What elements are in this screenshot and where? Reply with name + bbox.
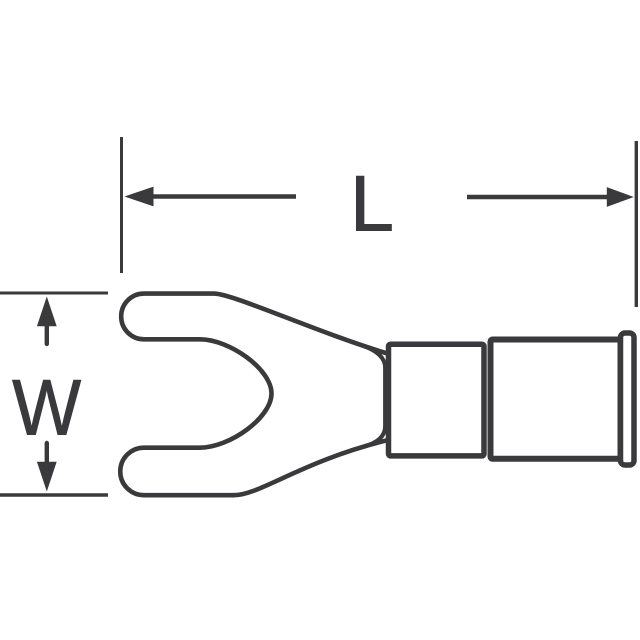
dimension L: left arrowhead: [125, 187, 154, 207]
end cap flange: [621, 333, 635, 465]
neck transition curve into barrel: [364, 346, 385, 447]
dimension W: down arrow shaft: [45, 443, 49, 463]
dimension W: down arrowhead: [37, 462, 57, 492]
dimension W: up arrow shaft: [45, 324, 49, 344]
dimension L: right arrowhead: [607, 187, 634, 207]
dimension L: left arrow shaft: [149, 194, 296, 198]
dimension W: top extension line: [0, 292, 108, 295]
svg-text:W: W: [12, 364, 81, 452]
dimension W: bottom extension line: [0, 493, 108, 496]
insulation crimp barrel (box 2): [491, 340, 621, 459]
wire crimp barrel (box 1): [389, 344, 485, 456]
dimension L: right extension line: [635, 141, 638, 307]
dimension W: up arrowhead: [37, 297, 57, 327]
dimension L: right arrow shaft: [467, 195, 609, 199]
fork terminal body outline: [120, 294, 389, 496]
dimension L: left extension line: [120, 137, 123, 273]
svg-text:L: L: [350, 158, 394, 247]
